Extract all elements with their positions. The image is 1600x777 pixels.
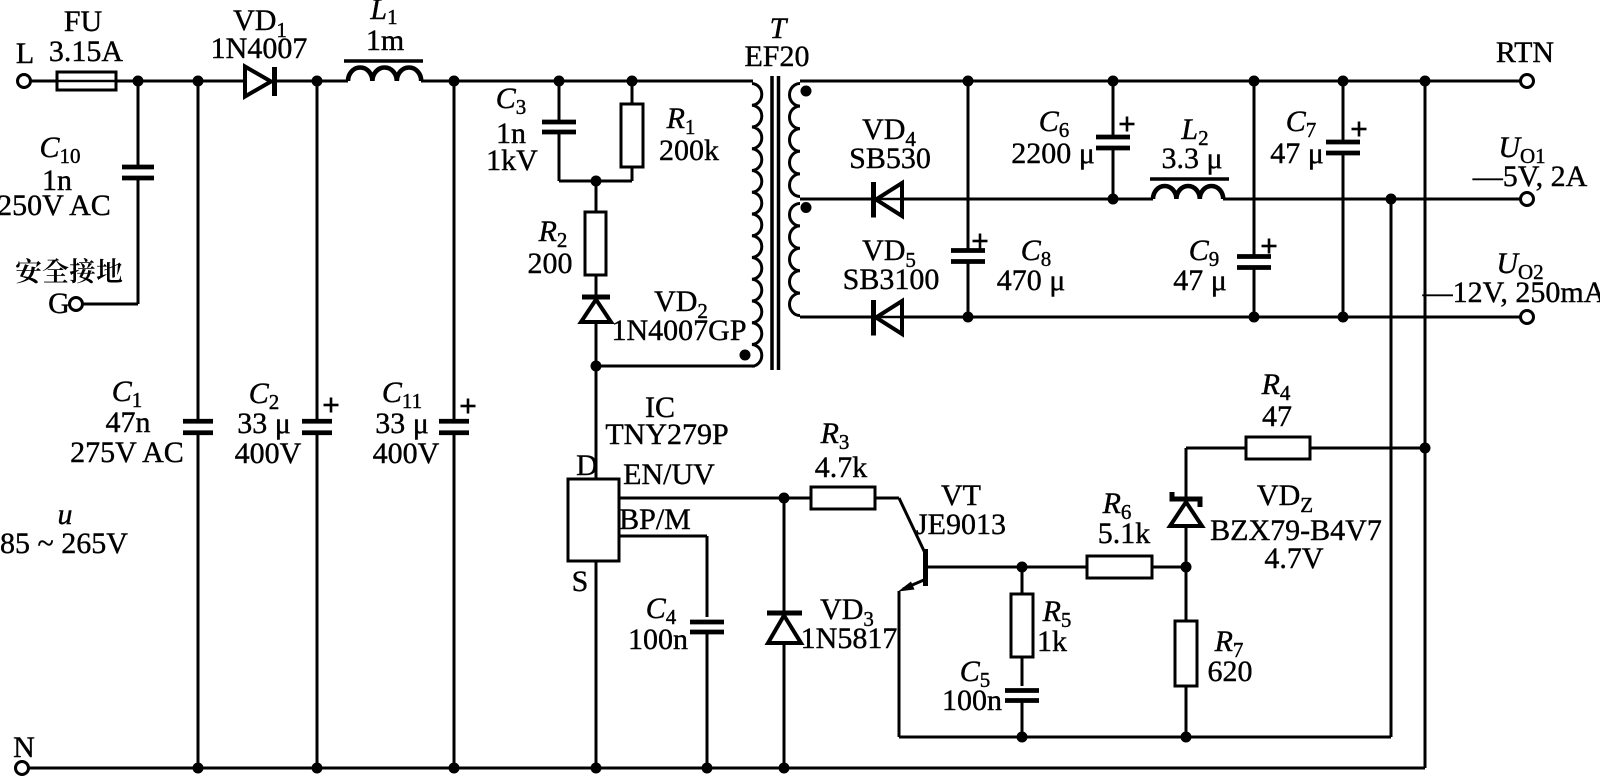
node RTN-N link top junction	[1420, 76, 1431, 87]
label T designator	[744, 12, 809, 73]
node C9 bottom junction	[1249, 312, 1260, 323]
svg-text:400V: 400V	[373, 437, 440, 470]
wire top rail A	[138, 80, 246, 83]
svg-text:1m: 1m	[366, 24, 404, 57]
inductor L2	[1150, 179, 1229, 199]
label pin EN/UV	[623, 458, 715, 491]
svg-text:L: L	[16, 37, 34, 70]
diode VD1	[245, 67, 275, 97]
capacitor C3	[542, 81, 596, 181]
wire VD5 to UO2	[902, 316, 1521, 319]
svg-text:275V AC: 275V AC	[70, 436, 184, 469]
svg-text:1N4007GP: 1N4007GP	[611, 314, 746, 347]
svg-text:5.1k: 5.1k	[1098, 517, 1151, 550]
capacitor C10	[122, 81, 154, 304]
fuse FU	[31, 72, 139, 90]
diode VD3	[767, 498, 802, 768]
svg-text:S: S	[572, 565, 589, 598]
node R7 bottom junction	[1181, 732, 1192, 743]
label IC designator	[605, 391, 728, 451]
svg-text:400V: 400V	[235, 437, 302, 470]
node snubber junction	[591, 176, 602, 187]
label R1 value	[659, 102, 719, 167]
svg-text:620: 620	[1208, 655, 1253, 688]
transformer T primary winding	[752, 84, 762, 367]
wire L1 to transformer	[421, 80, 753, 83]
label C1 value	[70, 375, 184, 469]
label VD4 value	[849, 113, 931, 175]
svg-text:JE9013: JE9013	[916, 508, 1006, 541]
transformer T secondary winding 2	[790, 204, 801, 316]
svg-text:D: D	[576, 449, 598, 482]
node S pin bottom junction	[591, 763, 602, 774]
node C1 bottom junction	[193, 763, 204, 774]
wire secondary tap to VD4	[800, 198, 871, 201]
label C10 value	[0, 131, 111, 222]
capacitor C7	[1326, 81, 1367, 317]
label L1 value	[366, 0, 404, 57]
node C6 top junction	[1108, 76, 1119, 87]
node C11 top junction	[449, 76, 460, 87]
resistor R5	[1011, 567, 1033, 686]
svg-text:47 μ: 47 μ	[1270, 137, 1324, 170]
svg-text:FU: FU	[64, 5, 103, 38]
wire S pin to N rail	[595, 561, 598, 768]
diode VD2	[581, 297, 611, 366]
inductor L1	[344, 61, 423, 81]
svg-text:85 ~ 265V: 85 ~ 265V	[0, 527, 128, 560]
label C2 value	[235, 377, 302, 470]
wire G to C10	[83, 303, 139, 306]
transformer T secondary 2 phase dot	[801, 202, 812, 213]
node feedback tap junction	[1386, 194, 1397, 205]
node C7 top junction	[1338, 76, 1349, 87]
resistor R6	[1022, 556, 1186, 578]
svg-text:SB530: SB530	[849, 142, 931, 175]
node C1 top junction	[193, 76, 204, 87]
label C4 value	[628, 592, 688, 656]
svg-text:2200 μ: 2200 μ	[1011, 137, 1095, 170]
terminal RTN	[1496, 36, 1554, 88]
label C3 value	[486, 82, 538, 177]
label C6 value	[1011, 105, 1095, 170]
svg-text:47: 47	[1262, 400, 1292, 433]
capacitor C9	[1237, 81, 1277, 317]
label VD3 value	[801, 593, 898, 655]
terminal G	[48, 287, 82, 320]
svg-text:1N4007: 1N4007	[211, 32, 308, 65]
svg-text:BP/M: BP/M	[619, 503, 691, 536]
resistor R3	[784, 487, 899, 509]
terminal UO1	[1472, 131, 1588, 206]
svg-text:470 μ: 470 μ	[997, 264, 1066, 297]
capacitor C6	[1096, 81, 1135, 199]
label L2 value	[1161, 113, 1222, 175]
label pin D	[576, 449, 598, 482]
terminal UO2	[1422, 247, 1600, 324]
terminal N	[13, 731, 35, 775]
label VD2 value	[611, 285, 746, 347]
svg-text:250V AC: 250V AC	[0, 189, 111, 222]
label VDZ value	[1210, 479, 1382, 575]
wire L2 to UO1	[1223, 198, 1521, 201]
svg-text:EF20: EF20	[744, 40, 809, 73]
label R3 value	[815, 417, 868, 484]
transformer T core	[772, 76, 779, 370]
label pin S	[572, 565, 589, 598]
label C8 value	[997, 234, 1066, 297]
wire BP/M to C4	[619, 536, 707, 617]
resistor R7	[1175, 567, 1197, 737]
resistor R2	[585, 181, 606, 295]
capacitor C5	[1005, 691, 1039, 738]
label pin BP/M	[619, 503, 691, 536]
label C5 value	[942, 655, 1002, 717]
transformer T primary phase dot	[740, 350, 751, 361]
svg-text:4.7V: 4.7V	[1264, 542, 1324, 575]
transformer T secondary winding 1	[789, 84, 800, 197]
svg-text:1N5817: 1N5817	[801, 622, 898, 655]
node C8 top junction	[963, 76, 974, 87]
svg-text:EN/UV: EN/UV	[623, 458, 715, 491]
label R5 value	[1037, 595, 1071, 658]
label R6 value	[1098, 487, 1151, 550]
capacitor C4	[690, 622, 724, 768]
terminal L	[16, 37, 34, 88]
node primary bottom junction	[591, 361, 602, 372]
wire EN/UV to node	[619, 497, 784, 500]
label VT value	[916, 479, 1006, 541]
svg-text:RTN: RTN	[1496, 36, 1554, 69]
node C7 bottom junction	[1338, 312, 1349, 323]
node R1 top junction	[627, 76, 638, 87]
svg-text:100n: 100n	[942, 684, 1002, 717]
label VD5 value	[843, 234, 940, 296]
svg-text:N: N	[13, 731, 35, 764]
svg-text:200: 200	[528, 247, 573, 280]
capacitor C2	[302, 81, 339, 768]
capacitor C1	[183, 81, 213, 768]
node collector junction	[1017, 562, 1028, 573]
op-amp U1 IC TNY279P body	[568, 479, 619, 561]
svg-text:33 μ: 33 μ	[375, 407, 429, 440]
svg-text:3.15A: 3.15A	[49, 35, 124, 68]
node C6 bottom junction	[1108, 194, 1119, 205]
node C11 bottom junction	[449, 763, 460, 774]
svg-text:200k: 200k	[659, 134, 719, 167]
wire VD1 to L1	[274, 80, 348, 83]
svg-text:TNY279P: TNY279P	[605, 418, 728, 451]
node EN/UV junction	[779, 493, 790, 504]
capacitor C8	[951, 81, 988, 317]
wire secondary bottom to VD5	[800, 316, 871, 319]
node C5 bottom junction	[1017, 732, 1028, 743]
node R4 right junction	[1420, 443, 1431, 454]
svg-text:SB3100: SB3100	[843, 263, 940, 296]
label input voltage u	[0, 498, 128, 560]
capacitor C11	[439, 81, 476, 768]
label C11 value	[373, 376, 440, 470]
label C7 value	[1270, 105, 1324, 170]
node zener junction	[1181, 562, 1192, 573]
label R7 value	[1208, 625, 1253, 688]
zener diode VDZ	[1170, 448, 1202, 567]
wire primary bottom to D pin	[595, 366, 598, 479]
svg-text:47n: 47n	[106, 406, 151, 439]
diode VD4	[874, 182, 903, 218]
svg-text:3.3 μ: 3.3 μ	[1161, 142, 1222, 175]
svg-text:G: G	[48, 287, 70, 320]
svg-text:33 μ: 33 μ	[237, 407, 291, 440]
node C8 bottom junction	[963, 312, 974, 323]
node C2 bottom junction	[312, 763, 323, 774]
resistor R4	[1186, 437, 1425, 459]
transistor Q1 VT JE9013	[898, 498, 1022, 737]
wire VD4 to L2	[902, 198, 1153, 201]
label C9 value	[1173, 234, 1227, 297]
node C3 top junction	[554, 76, 565, 87]
node C4 bottom junction	[702, 763, 713, 774]
resistor R1	[596, 81, 643, 181]
label VD1 value	[211, 4, 308, 65]
node C2 top junction	[312, 76, 323, 87]
svg-text:—12V, 250mA: —12V, 250mA	[1422, 276, 1600, 309]
label R2 value	[528, 215, 573, 280]
node C9 top junction	[1249, 76, 1260, 87]
transformer T secondary 1 phase dot	[801, 86, 812, 97]
wire N rail	[29, 767, 1426, 770]
wire RTN to N link	[1424, 81, 1427, 768]
label R4 value	[1261, 368, 1292, 433]
node fuse-C10 junction	[133, 76, 144, 87]
wire VD2 to primary	[596, 365, 755, 368]
svg-text:4.7k: 4.7k	[815, 451, 868, 484]
svg-text:1kV: 1kV	[486, 144, 538, 177]
label FU value	[49, 5, 124, 68]
svg-text:47 μ: 47 μ	[1173, 264, 1227, 297]
svg-text:—5V, 2A: —5V, 2A	[1472, 160, 1588, 193]
svg-text:100n: 100n	[628, 623, 688, 656]
label safety ground 安全接地	[16, 258, 122, 283]
node VD3 bottom junction	[779, 763, 790, 774]
svg-text:1k: 1k	[1037, 625, 1067, 658]
wire secondary top to RTN rail	[800, 80, 1521, 83]
wire feedback rail	[899, 199, 1391, 737]
diode VD5	[874, 300, 903, 336]
